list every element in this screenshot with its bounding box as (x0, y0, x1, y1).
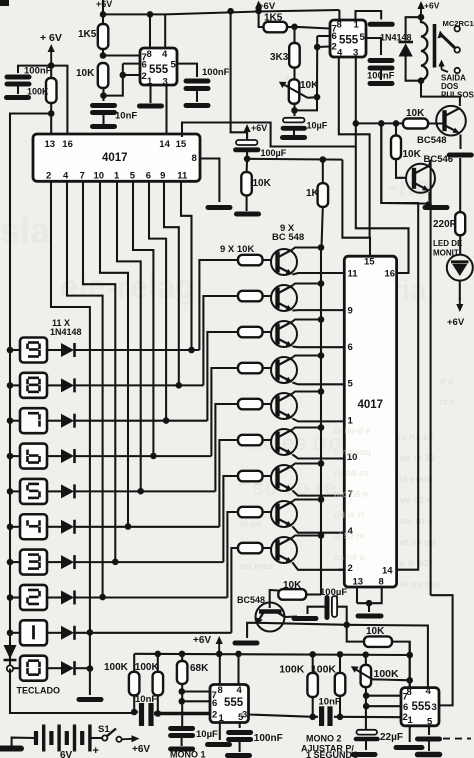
wire 1K to collector rail (322, 207, 323, 248)
wire R5 top (293, 27, 295, 43)
wire IC2 pin15 stub (342, 160, 370, 257)
svg-text:2: 2 (348, 563, 353, 574)
node base line b (393, 120, 400, 127)
capacitor 10nF (C1) (93, 106, 115, 113)
resistor base 10K T3 (238, 327, 263, 338)
wire C6 to ground (380, 68, 382, 80)
wire U4 pin1 gnd (409, 726, 411, 742)
wire trimmer top (365, 655, 367, 665)
svg-text:5: 5 (360, 32, 366, 43)
power +6V arrow bottom (216, 636, 223, 654)
node Rb/C9 (155, 710, 162, 717)
wire rail to digit 9 (10, 349, 20, 351)
op-amp IC2 4017 counter (344, 256, 396, 587)
svg-text:PULSOS: PULSOS (441, 91, 474, 100)
wire arrow to C7 (246, 131, 248, 139)
resistor 1K5 (R4) (264, 13, 288, 33)
node rail digit 1 (7, 630, 14, 637)
svg-text:od ia rt: od ia rt (334, 510, 364, 520)
wire IC1 output 6 staircase (133, 181, 153, 456)
node rail collector Q3 (318, 316, 325, 323)
svg-text:555: 555 (412, 701, 432, 713)
wire row7 riser to base resistor (207, 332, 238, 421)
wire RV1 wiper (308, 96, 318, 99)
wire row1 column to keyboard ground (89, 632, 91, 695)
wire row0 line (75, 667, 90, 669)
node coil bottom (418, 77, 425, 84)
node rail digit 2 (7, 594, 14, 601)
node row 4 junction (125, 523, 132, 530)
svg-text:MONO 1: MONO 1 (170, 750, 206, 758)
transistor Q6 BC548 (271, 429, 297, 455)
wire RV1 bottom (293, 104, 295, 116)
svg-text:100µF: 100µF (320, 587, 347, 598)
node rail Rd (337, 651, 344, 658)
wire left rail branch (10, 114, 51, 351)
svg-text:4: 4 (426, 686, 432, 697)
power arrow LED +6V (456, 298, 463, 312)
resistor 10K node A (241, 172, 271, 195)
node rail collector Q9 (318, 532, 325, 539)
wire U4 pin5 stub (428, 726, 430, 735)
wire collector Q6 (293, 428, 322, 430)
svg-text:BC546: BC546 (424, 154, 454, 165)
wire IC2 pin8 stub (357, 587, 382, 603)
node RV2/pin6 (363, 703, 370, 710)
display digit 0 (20, 656, 47, 681)
wire base T2 (263, 295, 272, 297)
node trimmer wiper U4 (406, 677, 413, 684)
wire diode branch top (406, 17, 421, 40)
svg-text:5: 5 (171, 60, 177, 71)
wire base-a drop (381, 123, 428, 203)
wire emitter Q7 to IC2 (293, 491, 345, 496)
svg-text:100µF: 100µF (261, 148, 287, 158)
wire R4 to R5 (287, 26, 295, 28)
svg-text:6: 6 (348, 342, 353, 353)
svg-text:+6V: +6V (424, 1, 440, 11)
svg-text:5: 5 (348, 379, 354, 390)
wire U3 pin7 (182, 690, 210, 692)
wire C2 to ground (196, 89, 198, 103)
node C8/reset (343, 622, 350, 629)
svg-text:ve 03 e: ve 03 e (400, 495, 432, 506)
node rail U3pin4 (235, 651, 242, 658)
wire row5 riser to base resistor (215, 404, 238, 491)
wire C9 left (134, 711, 138, 713)
wire +6V to 4017 pin16 (51, 66, 67, 134)
wire junction to U2 pin7 (295, 27, 331, 29)
wire C10 gnd stub (181, 736, 183, 747)
display digit 6 (20, 444, 47, 469)
diode D12 1N4148 flyback (399, 42, 414, 57)
diode D9 1N4148 (61, 343, 75, 357)
svg-text:3K3: 3K3 (270, 52, 289, 63)
resistor 100K (Rd) (335, 673, 346, 696)
wire R2 bottom stub (102, 88, 104, 101)
wire row8 line (75, 384, 203, 386)
svg-text:od mes: od mes (240, 561, 273, 572)
svg-text:13: 13 (353, 577, 364, 588)
ground C3 (7, 95, 29, 100)
svg-text:+6V: +6V (251, 123, 267, 133)
resistor 100K (Rc) (307, 673, 318, 697)
svg-text:ne es tro: ne es tro (250, 430, 342, 455)
LED de monitor (447, 255, 473, 281)
capacitor 10uF (C10) (171, 729, 193, 736)
svg-text:1: 1 (219, 713, 225, 724)
svg-text:6V: 6V (60, 750, 73, 758)
svg-text:100K: 100K (135, 662, 160, 673)
svg-text:le ço: le ço (240, 519, 262, 530)
ground Q11 emitter (425, 205, 447, 210)
wire emitter Q2 to IC2 (293, 309, 345, 311)
wire base T9 (263, 547, 272, 549)
relay contact NC (455, 68, 460, 73)
wire common collector rail (320, 248, 322, 595)
node row 8 junction (176, 382, 183, 389)
wire base T4 (263, 367, 272, 369)
ground C8 left (294, 616, 316, 621)
wire diode to coil bottom (406, 57, 421, 81)
svg-text:rt o: rt o (440, 397, 456, 408)
wire C8 left (308, 607, 325, 614)
wire base T3 (263, 331, 272, 333)
svg-text:555: 555 (339, 35, 359, 47)
trimmer arrow RV1 (279, 82, 308, 98)
wire U2 pin4 (339, 57, 370, 238)
wire emitter Q4 to IC2 (293, 383, 345, 385)
node rail collector Q5 (318, 388, 325, 395)
transistor Q9 BC548 (271, 537, 297, 563)
wire emitter Q1 to IC2 (293, 273, 345, 275)
node row 7 junction (163, 417, 170, 424)
wire C7 to node A (246, 152, 248, 159)
svg-text:S1: S1 (98, 724, 110, 735)
node row 3 junction (112, 559, 119, 566)
wire R3 to 4017 pin13 (50, 103, 52, 134)
svg-text:2: 2 (142, 71, 147, 82)
svg-text:MONO 2: MONO 2 (306, 734, 342, 744)
svg-text:BC 548: BC 548 (272, 232, 304, 243)
node trigger (131, 709, 138, 716)
svg-text:8: 8 (192, 153, 197, 164)
scan corner mark (0, 0, 9, 6)
display digit 7 (20, 408, 47, 433)
display digit 8 (20, 373, 47, 398)
node R1/R2 junction (100, 52, 107, 59)
capacitor 100nF (C6) (370, 61, 392, 69)
svg-text:100nF: 100nF (367, 71, 395, 82)
resistor 100K (Rb) (135, 662, 163, 695)
svg-text:2: 2 (212, 710, 217, 721)
wire node A line (247, 158, 342, 161)
node rail collector Q6 (318, 424, 325, 431)
resistor 10K (R2) (76, 63, 108, 88)
wire rail to 10K (306, 593, 321, 595)
wire T12 base feed (270, 590, 279, 608)
diode D3 1N4148 (61, 555, 75, 569)
wire base line (356, 122, 404, 124)
capacitor 100uF (C7) electrolytic (236, 140, 259, 150)
svg-text:6: 6 (212, 698, 217, 709)
resistor 10K charge (364, 626, 392, 647)
node rail collector Q4 (318, 352, 325, 359)
wire collector Q4 (293, 356, 322, 358)
svg-text:el 52 te: el 52 te (334, 531, 365, 541)
node row 9 junction (188, 347, 195, 354)
svg-text:te ile-d e: te ile-d e (334, 426, 371, 436)
resistor base 10K T5 (238, 399, 263, 410)
svg-text:TECLADO: TECLADO (17, 686, 61, 696)
svg-text:1: 1 (408, 715, 414, 726)
display digit 3 (20, 550, 47, 575)
node rail digit 8 (7, 382, 14, 389)
ground Q12 emitter (235, 641, 257, 646)
wire C1 to ground (102, 113, 104, 125)
display digit 4 (20, 514, 47, 539)
svg-text:as ne o: as ne o (334, 552, 366, 562)
relay K1 core bar (433, 24, 437, 68)
wire U3 pin1 gnd (219, 723, 221, 741)
wire rail to Ra (133, 654, 135, 672)
svg-text:+6V: +6V (447, 317, 465, 328)
wire base T8 (263, 511, 272, 513)
wire C13 gnd (365, 741, 367, 750)
resistor base 10K T6 (238, 435, 263, 446)
transistor Q1 BC548 (271, 249, 297, 275)
svg-text:+6V: +6V (193, 635, 211, 646)
resistor 1K (306, 183, 328, 207)
wire U2 pin1 (356, 11, 382, 20)
resistor base 10K T1 (238, 255, 263, 265)
node Rd/C12 (337, 714, 344, 721)
node rail digit 7 (7, 417, 14, 424)
svg-text:5: 5 (130, 171, 136, 182)
wire digit 3 to diode (47, 561, 61, 563)
svg-text:10K: 10K (406, 108, 425, 119)
wire collector Q1 (293, 248, 322, 250)
wire U2 pin2 (317, 45, 330, 48)
wire row9 riser to base resistor (199, 260, 238, 350)
svg-text:10K: 10K (283, 580, 302, 591)
svg-text:+ 6V: + 6V (40, 32, 62, 44)
resistor base 10K T4 (238, 363, 263, 374)
wire row2 riser to base resistor (227, 512, 238, 598)
node U2 pin2/6 join (314, 44, 321, 51)
wire Q10 gnd to 220R (459, 158, 461, 212)
svg-text:14: 14 (159, 139, 170, 150)
capacitor 10nF (C12) series (322, 706, 330, 726)
resistor 10K Q11 base (391, 136, 422, 161)
wire U2 pin3 down (355, 57, 357, 147)
wire dashed pin5 (443, 738, 471, 740)
wire row7 line (75, 420, 207, 422)
ground Q10 emitter (449, 153, 471, 158)
ground C11 (228, 753, 250, 758)
resistor 10K Q10 base (403, 108, 428, 129)
wire Rd (339, 654, 341, 673)
op-amp U1 555 timer (140, 48, 177, 88)
node 68K pin7 (179, 688, 186, 695)
node rail digit 9 (7, 347, 14, 354)
op-amp U4 555 timer (401, 686, 439, 728)
wire IC1 output 8 staircase (164, 181, 179, 385)
node rail 68K (179, 651, 186, 658)
node R4/R5 junction (291, 24, 298, 31)
op-amp U2 555 timer (330, 20, 366, 59)
wire U3 pin6 (182, 700, 210, 702)
svg-text:4: 4 (63, 171, 69, 182)
wire 220R to LED (459, 235, 461, 255)
node row 2 junction (99, 594, 106, 601)
transistor Q3 BC548 (271, 321, 297, 347)
svg-text:1: 1 (354, 20, 360, 31)
resistor base 10K T7 (238, 471, 263, 482)
wire C12 to U4 pin2 (334, 716, 401, 718)
node RV1 wiper junction (314, 94, 321, 101)
power +6V arrow relay (417, 1, 424, 17)
svg-text:2: 2 (332, 42, 337, 53)
resistor 220R (433, 212, 465, 235)
diode keyboard rail (vertical) (4, 645, 17, 660)
svg-text:1: 1 (114, 171, 120, 182)
wire collector Q9 (293, 536, 322, 538)
node A (244, 156, 251, 163)
node RV2/pin7 (363, 692, 370, 699)
wire 10K charge left (347, 625, 364, 642)
svg-text:4: 4 (337, 48, 343, 59)
wire wiper down to C5 (295, 97, 318, 110)
wire Rb top (157, 654, 159, 672)
svg-text:BC548: BC548 (417, 135, 447, 146)
wire base T5 (263, 403, 272, 405)
wire rail to digit 2 (10, 596, 20, 598)
svg-text:3: 3 (353, 48, 358, 59)
node row 6 junction (150, 453, 157, 460)
wire emitter Q9 to IC2 (293, 563, 345, 570)
node U1 pin8 tap (147, 11, 154, 18)
node top rail junction (100, 11, 107, 18)
wire +6V rail top (102, 0, 104, 56)
wire 68K top (181, 654, 183, 661)
svg-text:100K: 100K (27, 87, 49, 97)
wire nodeA 10K top (246, 159, 249, 172)
diode D4 1N4148 (61, 520, 75, 534)
wire 68K bottom (181, 684, 183, 726)
wire base T1 (263, 259, 272, 261)
op-amp U3 555 timer (210, 685, 249, 725)
wire junction to U1 pin7 (103, 54, 140, 56)
wire IC2 pin14 (381, 123, 418, 569)
ground IC1 pin8 (208, 205, 230, 210)
wire digit 7 to diode (47, 420, 61, 422)
wire IC1 output 4 staircase (100, 181, 128, 526)
svg-text:100K: 100K (311, 664, 337, 676)
wire keyboard left rail (9, 350, 11, 669)
svg-text:11: 11 (177, 171, 188, 182)
node rail Rc (309, 651, 316, 658)
wire U1 pin3 to 4017 pin14 (165, 85, 167, 137)
node row 5 junction (137, 488, 144, 495)
svg-text:e s: e s (440, 376, 453, 387)
wire U1 pin1 to ground (149, 85, 151, 103)
svg-text:+: + (93, 745, 99, 757)
wire IC2 pin2 left (338, 569, 344, 571)
show-through texture overlay (334, 426, 371, 562)
transistor Q11 BC548 (406, 164, 435, 193)
wire rail to digit 5 (10, 490, 20, 492)
node rail collector Q2 (318, 280, 325, 287)
ground keyboard return (79, 697, 101, 702)
wire nodeA 10K gnd (246, 195, 248, 211)
svg-text:14: 14 (382, 566, 393, 577)
relay contact NO (455, 47, 460, 52)
wire C8 right (337, 607, 347, 625)
svg-text:100K: 100K (279, 664, 305, 676)
display digit 2 (20, 585, 47, 610)
wire base T6 (263, 439, 272, 441)
wire U4 pin8 stub (409, 642, 411, 688)
svg-text:10K: 10K (366, 626, 385, 637)
resistor 3K3 (R5) (270, 43, 300, 68)
node Rc bottom (309, 714, 316, 721)
op-amp IC1 4017 counter (33, 134, 200, 182)
ground C10 (171, 747, 193, 752)
wire 10K2 to Q11 base (396, 159, 407, 178)
svg-text:13: 13 (45, 139, 56, 150)
node row0 open circle (7, 665, 13, 671)
svg-text:1: 1 (348, 416, 354, 427)
svg-text:100nF: 100nF (24, 66, 52, 77)
svg-text:9 X 10K: 9 X 10K (220, 244, 254, 255)
relay lower contact arrow (438, 60, 448, 73)
wire U2 pin6 (317, 35, 330, 37)
wire RV2 to 22uF (365, 706, 367, 729)
wire rail to digit 3 (10, 561, 20, 563)
node rail Rb (155, 651, 162, 658)
svg-text:100nF: 100nF (202, 67, 230, 78)
svg-text:7: 7 (403, 692, 408, 703)
wire R5 to trimmer (293, 68, 295, 80)
wire rail to digit 1 (10, 632, 20, 634)
wire U2 pin5 to C6 (366, 38, 381, 55)
wire U1 pin 6 (123, 63, 140, 65)
svg-text:LED DE: LED DE (433, 239, 463, 248)
svg-text:100nF: 100nF (254, 733, 283, 744)
svg-text:555: 555 (224, 697, 244, 709)
battery B1 6V (36, 725, 90, 752)
node rail digit 5 (7, 488, 14, 495)
capacitor 10uF (C5) electrolytic (283, 118, 305, 129)
capacitor 22uF (C13) electrolytic (356, 730, 378, 739)
wire IC1 pin8 to ground (200, 159, 219, 203)
svg-text:am ro s: am ro s (399, 516, 433, 527)
capacitor 100nF (C3) (7, 77, 29, 84)
relay contact common (455, 26, 460, 31)
svg-text:10K: 10K (76, 68, 95, 79)
node IC2 13-8 join (366, 600, 373, 607)
wire emitter Q6 to IC2 (293, 455, 345, 459)
wire U3 pin5 stub (239, 723, 241, 729)
wire IC2 pin13 stub (356, 587, 358, 603)
resistor base 10K T8 (238, 507, 263, 518)
wire row5 line (75, 490, 215, 492)
wire IC1 output 2 staircase (67, 181, 103, 597)
wire emitter Q8 to IC2 (293, 527, 345, 533)
svg-text:6: 6 (142, 60, 147, 71)
wire C11 gnd (239, 740, 241, 753)
